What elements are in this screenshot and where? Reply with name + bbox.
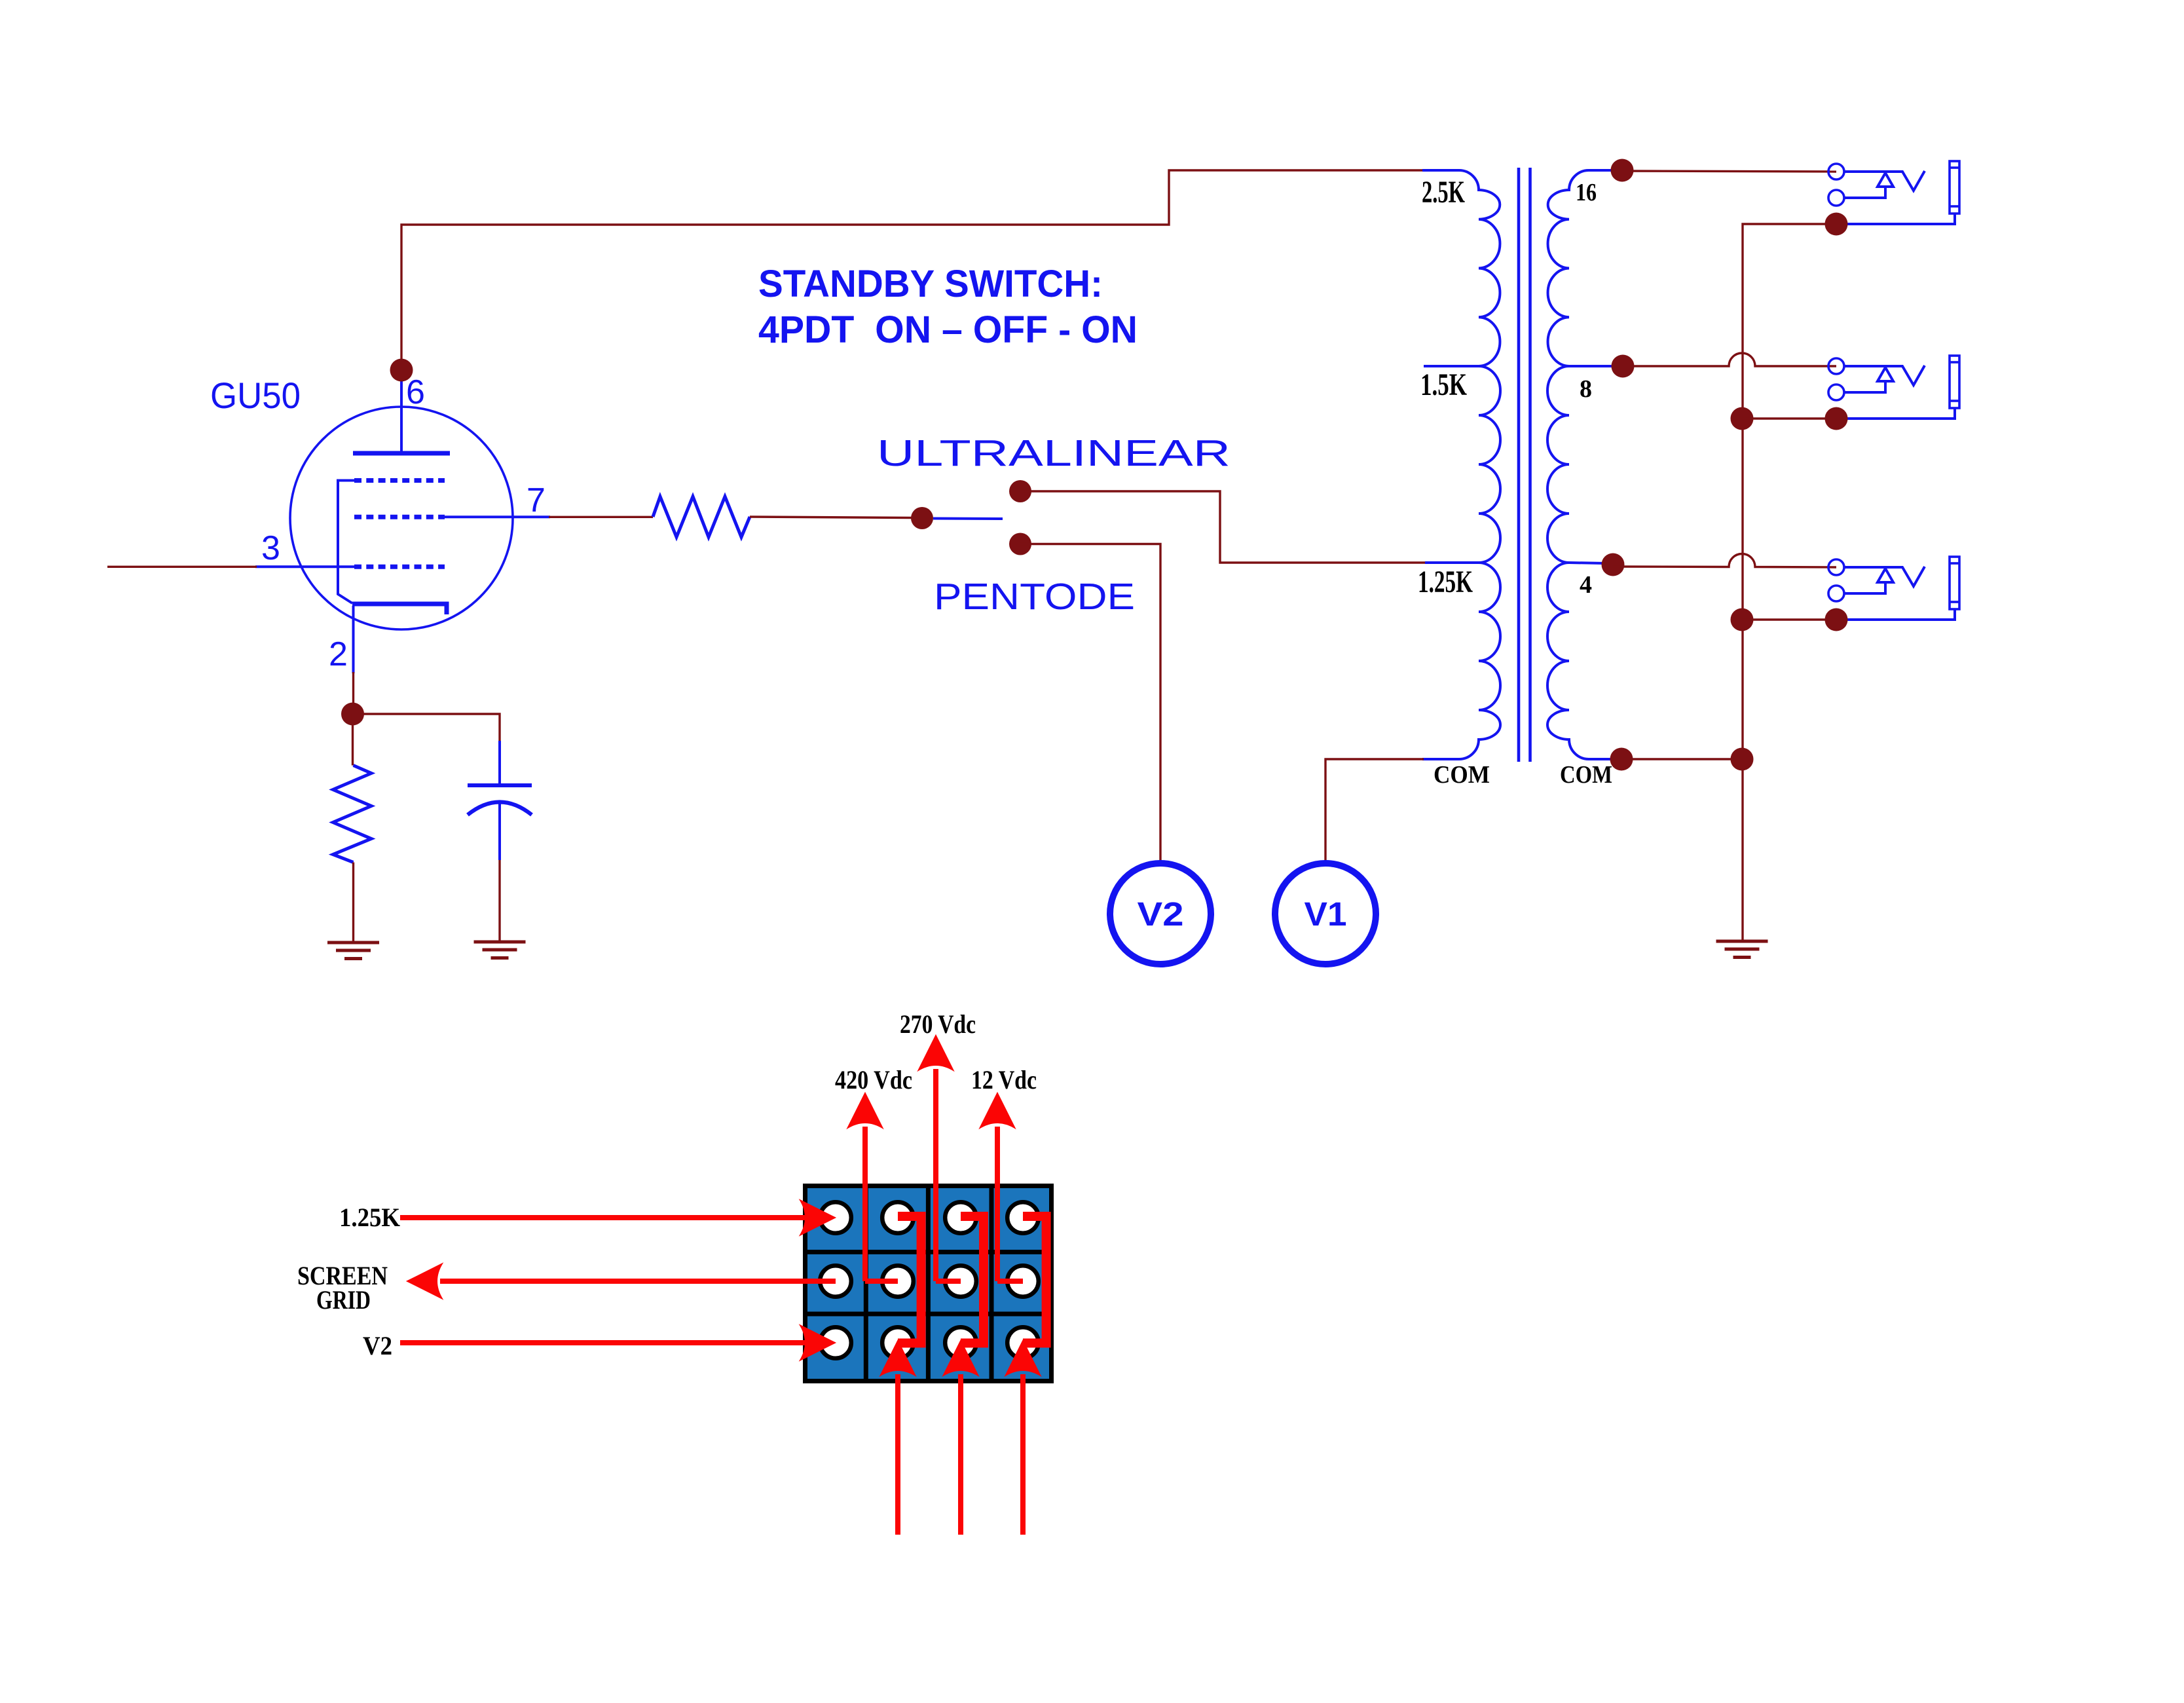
wire C1 to ground (498, 860, 500, 942)
svg-text:GU50: GU50 (210, 375, 301, 416)
transformer core (1519, 168, 1530, 762)
wire secondary COM to ground bus (1621, 758, 1742, 760)
voltmeter V1 circle (1275, 863, 1376, 964)
label ULTRALINEAR (877, 432, 1231, 474)
svg-text:GRID: GRID (316, 1285, 371, 1315)
wire pin6 plate to transformer 2.5K tap (401, 170, 1425, 375)
wire bus to J3 sleeve (1742, 618, 1836, 620)
wire pin7 to resistor R1 (549, 516, 653, 518)
label COM primary (1434, 761, 1490, 789)
wire R2 to ground (352, 863, 354, 943)
red jumper col2 row1-row3 (898, 1216, 921, 1343)
red arrow 12 Vdc (980, 1093, 1024, 1281)
label 12 Vdc (971, 1065, 1037, 1095)
ground symbol (speaker bus) (1716, 941, 1768, 958)
wire pin2 cathode down (352, 672, 354, 714)
speaker jack J3 (4 ohm) (1825, 557, 1960, 631)
svg-text:6: 6 (406, 373, 425, 411)
junction dot bus COM (1731, 748, 1754, 771)
red arrow bottom into col4 (1005, 1340, 1041, 1535)
svg-text:V1: V1 (1305, 895, 1347, 933)
label SCREEN GRID line2 (316, 1285, 371, 1315)
wire cathode node to resistor R2 (352, 714, 354, 766)
wire PENTODE throw to voltmeter V2 (1020, 544, 1160, 864)
wire 8 tap to jack J2 tip (hop over bus) (1623, 353, 1836, 366)
svg-text:12 Vdc: 12 Vdc (971, 1065, 1037, 1095)
pin label 7 (527, 481, 546, 519)
label V2 meter (1138, 895, 1184, 933)
red arrow bottom into col3 (943, 1340, 979, 1535)
svg-text:2: 2 (329, 635, 348, 673)
svg-text:1.25K: 1.25K (1418, 565, 1473, 599)
label STANDBY SWITCH line1 (758, 263, 1103, 305)
pin label 6 (406, 373, 425, 411)
red arrow SCREEN GRID output (407, 1263, 836, 1300)
pin label 3 (261, 529, 280, 567)
red arrow 420 Vdc (847, 1093, 898, 1281)
ground symbol (cathode resistor) (327, 943, 379, 959)
wire V1 to primary COM (1325, 759, 1424, 863)
svg-text:16: 16 (1576, 179, 1597, 206)
svg-text:3: 3 (261, 529, 280, 567)
vacuum tube GU50 (pentode) (255, 375, 550, 673)
junction dot secondary COM tap (1610, 748, 1633, 771)
red arrow 1.25K input (400, 1200, 836, 1236)
switch S1 ULTRALINEAR throw dot (1009, 480, 1031, 502)
red arrow bottom into col2 (880, 1340, 916, 1535)
wire bus to J2 sleeve (1742, 417, 1836, 419)
ground bus vertical (1743, 224, 1836, 941)
svg-text:2.5K: 2.5K (1422, 175, 1465, 210)
wire 16 tap to jack J1 tip (1622, 171, 1836, 172)
switch S1 lever (933, 517, 1003, 521)
svg-text:ULTRALINEAR: ULTRALINEAR (877, 432, 1231, 474)
speaker jack J1 (16 ohm) (1825, 161, 1960, 236)
wire pin3 grid input (left) (107, 566, 257, 568)
label SCREEN GRID line1 (297, 1261, 388, 1290)
label PENTODE (934, 576, 1135, 618)
wire ULTRALINEAR throw to 1.25K tap (1020, 491, 1425, 563)
svg-text:1.25K: 1.25K (339, 1203, 400, 1232)
svg-text:1.5K: 1.5K (1420, 367, 1467, 402)
red arrow 270 Vdc (918, 1035, 961, 1281)
junction dot pin6 (390, 359, 413, 382)
junction dot 4 tap (1602, 553, 1625, 576)
terminal block TB1 screw terminals (820, 1202, 1039, 1358)
svg-text:COM: COM (1560, 761, 1612, 789)
wire R1 to switch common (750, 517, 912, 518)
label V2 wire (363, 1331, 392, 1360)
switch S1 PENTODE throw dot (1009, 533, 1031, 555)
voltmeter V2 circle (1110, 863, 1211, 964)
label 4 (1580, 571, 1592, 599)
ground symbol (capacitor) (474, 942, 526, 958)
capacitor C1 (cathode bypass) (468, 741, 532, 860)
resistor R1 (grid stopper) (653, 496, 750, 537)
resistor R2 (cathode bias) (333, 766, 372, 863)
transformer T1 windings (1422, 170, 1625, 759)
svg-text:V2: V2 (363, 1331, 392, 1360)
label GU50 (210, 375, 301, 416)
label 270 Vdc (900, 1009, 976, 1039)
wire cathode node to capacitor C1 (353, 714, 500, 741)
pin label 2 (329, 635, 348, 673)
label STANDBY SWITCH line2 (758, 309, 1138, 351)
svg-text:8: 8 (1580, 375, 1592, 403)
svg-text:7: 7 (527, 481, 546, 519)
junction dot bus-J2 sleeve (1731, 407, 1754, 430)
svg-text:COM: COM (1434, 761, 1490, 789)
red jumper col3 row1-row3 (961, 1216, 984, 1343)
label 8 (1580, 375, 1592, 403)
junction dot 8 tap (1612, 355, 1635, 378)
speaker jack J2 (8 ohm) (1825, 356, 1960, 430)
junction dot bus-J3 sleeve (1731, 608, 1754, 631)
label 1.25K tap (1418, 565, 1473, 599)
label 16 (1576, 179, 1597, 206)
svg-text:4PDT ON – OFF - ON: 4PDT ON – OFF - ON (758, 309, 1138, 351)
red jumper col4 row1-row3 (1023, 1216, 1046, 1343)
svg-text:STANDBY SWITCH:: STANDBY SWITCH: (758, 263, 1103, 305)
switch S1 common pole dot (911, 507, 933, 529)
label 1.5K (1420, 367, 1467, 402)
svg-text:4: 4 (1580, 571, 1592, 599)
label 420 Vdc (835, 1065, 912, 1095)
svg-text:V2: V2 (1138, 895, 1184, 933)
svg-text:270 Vdc: 270 Vdc (900, 1009, 976, 1039)
label COM secondary (1560, 761, 1612, 789)
red arrow V2 input (400, 1325, 836, 1361)
junction dot cathode node (341, 703, 364, 726)
wire 4 tap to jack J3 tip (hop over bus) (1613, 554, 1836, 568)
svg-text:PENTODE: PENTODE (934, 576, 1135, 618)
label V1 meter (1305, 895, 1347, 933)
label 2.5K (1422, 175, 1465, 210)
label 1.25K wire (339, 1203, 400, 1232)
terminal block TB1 body (803, 1184, 1054, 1383)
svg-text:420 Vdc: 420 Vdc (835, 1065, 912, 1095)
junction dot 16 tap (1611, 159, 1634, 182)
